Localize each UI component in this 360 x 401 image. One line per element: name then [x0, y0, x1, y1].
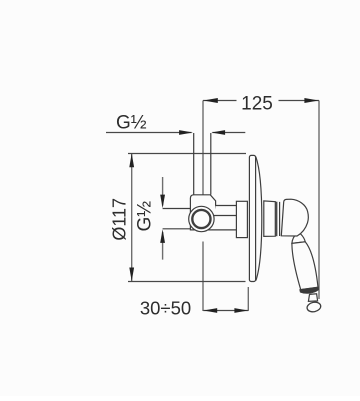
- svg-text:Ø117: Ø117: [109, 198, 129, 241]
- svg-text:125: 125: [241, 93, 273, 114]
- svg-text:G½: G½: [116, 113, 147, 134]
- svg-text:30÷50: 30÷50: [140, 298, 191, 319]
- svg-text:G½: G½: [135, 201, 156, 232]
